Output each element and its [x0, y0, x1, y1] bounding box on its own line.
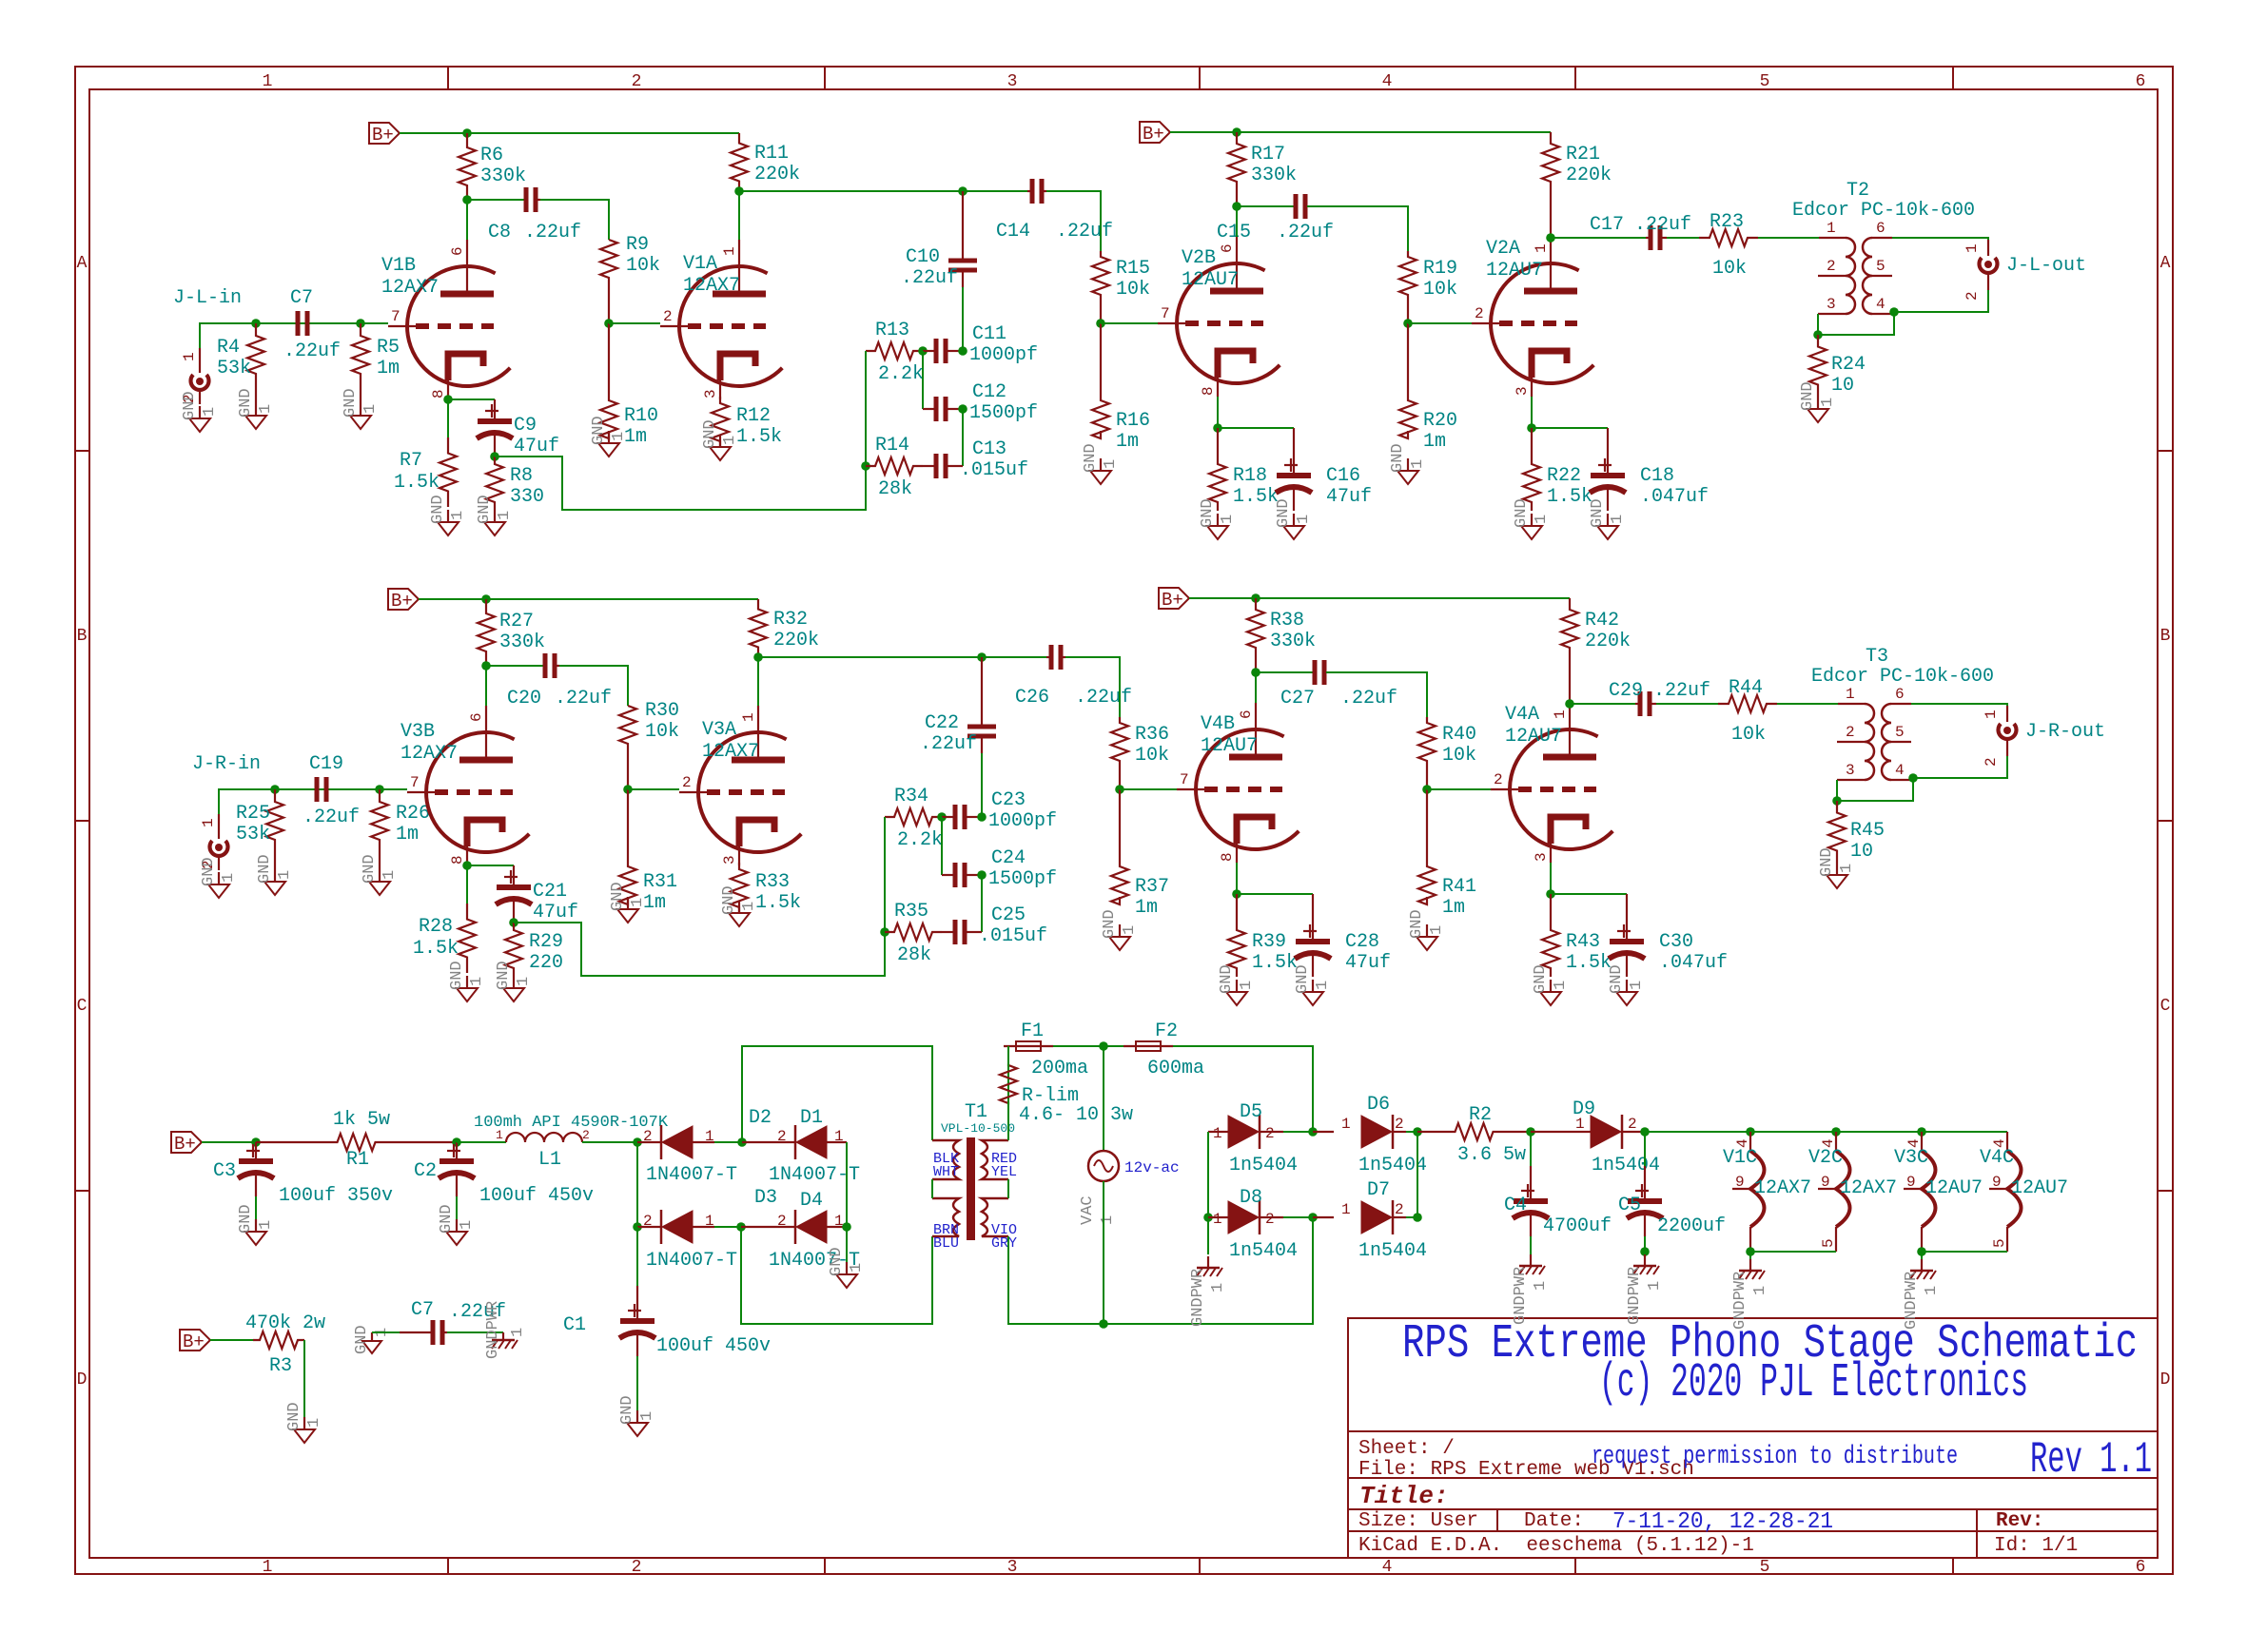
junction D4 / D1 / ground	[842, 1222, 851, 1232]
capacitor C14 .22uf	[996, 179, 1113, 243]
svg-text:1: 1	[1099, 1215, 1117, 1225]
junction R2 / C4 / D9	[1526, 1127, 1535, 1137]
svg-text:GND: GND	[181, 391, 199, 420]
svg-text:10k: 10k	[1712, 258, 1747, 280]
wire cathode V4B down	[1236, 863, 1238, 894]
request permission note	[1592, 1443, 1958, 1471]
svg-text:1: 1	[468, 977, 486, 986]
svg-text:1: 1	[740, 712, 757, 722]
svg-text:1: 1	[1838, 864, 1856, 873]
svg-text:28k: 28k	[878, 478, 912, 500]
ground below R7	[429, 495, 467, 535]
wire R-lim bottom	[1007, 1102, 1009, 1140]
svg-text:1: 1	[1409, 459, 1427, 469]
capacitor C16 47uf polarised	[1276, 428, 1372, 511]
svg-text:GND: GND	[1294, 964, 1312, 994]
svg-text:KiCad E.D.A. eeschema (5.1.12: KiCad E.D.A. eeschema (5.1.12)-1	[1358, 1535, 1754, 1557]
svg-text:2: 2	[1475, 305, 1484, 322]
ground below R8	[476, 495, 514, 535]
wire jack to input node	[200, 323, 388, 348]
heater V2C 12AX7	[1808, 1132, 1897, 1252]
svg-text:3: 3	[702, 389, 719, 398]
junction D8 / D7 / bottom rail	[1308, 1213, 1318, 1222]
junction R6 bottom / C8 / plate	[462, 195, 472, 204]
svg-text:10k: 10k	[1442, 745, 1476, 767]
ground below R45	[1818, 847, 1856, 888]
wire plate pin V4B	[1255, 672, 1257, 703]
svg-text:V4C: V4C	[1980, 1147, 2014, 1169]
svg-text:1: 1	[1751, 1286, 1769, 1295]
triode V1A 12AX7 second section	[660, 240, 782, 399]
svg-text:A: A	[77, 254, 88, 273]
svg-text:2: 2	[643, 1213, 653, 1230]
junction D6 / R2 / D7 branch	[1413, 1127, 1422, 1137]
capacitor C11 1000pf	[923, 323, 1038, 366]
ground below R5	[342, 388, 380, 429]
diode D4 1N4007-T	[769, 1190, 860, 1272]
resistor R37 1m	[1111, 789, 1169, 919]
svg-text:B+: B+	[1162, 590, 1183, 611]
svg-text:GND: GND	[448, 961, 466, 990]
junction R13 / C11	[918, 346, 928, 356]
svg-text:1: 1	[1209, 1283, 1227, 1292]
wire feedback C9 node to R14 node	[495, 457, 866, 510]
svg-text:C8: C8	[488, 222, 511, 243]
svg-text:YEL: YEL	[991, 1164, 1017, 1180]
svg-text:10: 10	[1850, 841, 1873, 863]
output label J-L-out	[2006, 255, 2086, 277]
wire grid V1A	[609, 322, 660, 324]
svg-text:1: 1	[305, 1418, 323, 1428]
junction D9 / C5 / heater rail	[1640, 1127, 1650, 1137]
wire C1 from D3 node	[636, 1227, 638, 1286]
svg-text:C16: C16	[1326, 465, 1360, 487]
svg-text:100uf 450v: 100uf 450v	[656, 1335, 771, 1357]
junction C3 / R1	[251, 1137, 261, 1147]
svg-text:1: 1	[1341, 1201, 1351, 1218]
svg-text:D2: D2	[749, 1107, 772, 1129]
svg-text:C22: C22	[925, 712, 959, 734]
ground below jack J-R-in	[200, 857, 238, 898]
svg-text:GND: GND	[237, 1204, 255, 1234]
junction D2 / D1 / top rail	[737, 1137, 747, 1147]
wire C29 to R44	[1656, 703, 1718, 705]
svg-text:2: 2	[1827, 258, 1836, 275]
svg-text:GNDPWR: GNDPWR	[1903, 1272, 1921, 1330]
capacitor C23 1000pf	[942, 789, 1057, 832]
svg-text:220k: 220k	[1566, 165, 1612, 186]
junction B+ rail 2 / R17	[1232, 127, 1241, 137]
capacitor C2 100uf 450v polarised	[414, 1142, 594, 1207]
wire D2 cathode to junction	[714, 1141, 742, 1143]
wire D1 to D4 junction	[846, 1142, 848, 1227]
ground below R43	[1532, 964, 1570, 1005]
svg-text:V1B: V1B	[381, 255, 416, 277]
svg-text:GND: GND	[1082, 443, 1100, 473]
svg-text:1: 1	[1341, 1116, 1351, 1133]
resistor R8 330	[486, 457, 544, 510]
svg-text:C: C	[2160, 997, 2171, 1016]
svg-text:1: 1	[1219, 515, 1237, 524]
svg-text:R6: R6	[480, 145, 503, 166]
wire T2 pin6 to J-L-out	[1892, 238, 1988, 240]
resistor R28 1.5k	[413, 904, 476, 973]
ground below C3	[237, 1204, 275, 1245]
svg-text:10k: 10k	[1116, 279, 1150, 301]
svg-text:4.6- 10 3w: 4.6- 10 3w	[1019, 1104, 1133, 1126]
connector J-R-out jack	[1983, 706, 2017, 767]
ground below R28	[448, 961, 486, 1001]
resistor R44 10k	[1718, 677, 1777, 746]
svg-text:3: 3	[721, 855, 738, 865]
svg-text:J-L-out: J-L-out	[2006, 255, 2086, 277]
svg-text:C26: C26	[1015, 687, 1049, 709]
wire R-lim top	[1007, 1046, 1009, 1066]
svg-text:1: 1	[1213, 1125, 1222, 1142]
svg-text:R12: R12	[736, 405, 771, 427]
triode V4A 12AU7 output section	[1491, 703, 1612, 863]
svg-text:B+: B+	[391, 591, 413, 612]
power flag B+ bleeder	[180, 1330, 210, 1352]
svg-text:GND: GND	[1218, 964, 1236, 994]
resistor R19 10k	[1399, 251, 1457, 323]
svg-text:R23: R23	[1710, 211, 1744, 233]
svg-text:R10: R10	[624, 405, 658, 427]
ground left of C7 supply cap	[353, 1325, 391, 1354]
svg-text:D9: D9	[1573, 1098, 1595, 1120]
svg-text:C7: C7	[411, 1299, 434, 1321]
capacitor C28 47uf polarised	[1295, 894, 1391, 977]
wire plate pin V1A	[738, 191, 740, 240]
svg-text:12AU7: 12AU7	[1505, 726, 1562, 748]
svg-text:1.5k: 1.5k	[1547, 486, 1592, 508]
ground below R26	[361, 854, 399, 895]
resistor R22 1.5k	[1523, 428, 1592, 511]
svg-text:1: 1	[1964, 243, 1981, 253]
wire R13 left vertical	[865, 351, 867, 466]
resistor R42 220k	[1561, 598, 1631, 704]
junction D3 / D3 branch	[633, 1222, 642, 1232]
svg-text:R1: R1	[346, 1149, 369, 1171]
svg-text:Sheet: /: Sheet: /	[1358, 1438, 1455, 1460]
junction cathode V3B	[462, 861, 472, 870]
svg-text:R30: R30	[645, 700, 679, 722]
svg-text:8: 8	[1200, 386, 1217, 396]
size field	[1358, 1510, 1478, 1532]
ground below C16	[1275, 498, 1313, 539]
svg-text:1: 1	[1628, 981, 1646, 990]
svg-text:Date:: Date:	[1524, 1510, 1584, 1532]
wire D6 cathode to junction	[1406, 1131, 1417, 1133]
title text line 2	[1599, 1356, 2028, 1410]
title label	[1359, 1482, 1449, 1510]
junction R30 / R31 / grid2	[623, 785, 633, 794]
wire R11 node to C14	[739, 190, 1027, 192]
wire R1 node to L1	[457, 1141, 506, 1143]
junction R19 / R20 / grid V2A	[1403, 319, 1413, 328]
diode D8 1n5404	[1213, 1187, 1298, 1262]
svg-text:1: 1	[201, 407, 219, 417]
svg-text:330k: 330k	[499, 632, 545, 653]
svg-text:R2: R2	[1469, 1104, 1492, 1126]
resistor R35 28k	[885, 901, 942, 966]
wire cathode V4A down	[1550, 863, 1552, 894]
svg-text:V4B: V4B	[1201, 713, 1235, 735]
svg-text:GND: GND	[1608, 964, 1626, 994]
junction VAC / bottom rail	[1099, 1319, 1108, 1329]
junction B+ rail / R6	[462, 128, 472, 138]
wire cathode node V2A to C18	[1532, 427, 1608, 429]
resistor R16 1m	[1092, 323, 1150, 453]
svg-text:12AX7: 12AX7	[683, 275, 740, 297]
svg-text:C3: C3	[213, 1160, 236, 1182]
svg-text:GND: GND	[1513, 498, 1531, 528]
svg-text:47uf: 47uf	[1345, 952, 1391, 974]
svg-text:2: 2	[1494, 771, 1503, 788]
wire C27 to R40	[1326, 672, 1427, 717]
svg-text:3.6 5w: 3.6 5w	[1457, 1144, 1526, 1166]
input label J-R-in	[192, 753, 261, 775]
svg-text:1: 1	[1532, 1281, 1550, 1291]
svg-text:V2C: V2C	[1808, 1147, 1843, 1169]
power ground GNDPWR below V1C	[1731, 1259, 1769, 1330]
wire grid V2B	[1101, 322, 1158, 324]
junction cathode V2A	[1527, 423, 1536, 433]
svg-text:R5: R5	[377, 337, 400, 359]
wire D5 left branch	[1207, 1132, 1209, 1217]
wire T2 pin4 link	[1818, 312, 1894, 335]
svg-text:12AX7: 12AX7	[1840, 1177, 1897, 1199]
svg-text:GND: GND	[285, 1402, 303, 1431]
capacitor C30 polarised	[1609, 894, 1728, 977]
diode D2 cathode lead	[693, 1141, 714, 1143]
power ground GNDPWR right of C7	[484, 1301, 527, 1359]
resistor R41 1m	[1418, 789, 1476, 919]
svg-text:F2: F2	[1155, 1020, 1178, 1042]
wire cathode node V4B to C28	[1237, 893, 1313, 895]
svg-text:1.5k: 1.5k	[413, 938, 459, 960]
resistor R18 1.5k	[1209, 428, 1279, 511]
svg-text:C27: C27	[1280, 688, 1315, 709]
junction L1 / D2 / D3 branch	[633, 1137, 642, 1147]
svg-text:.22uf: .22uf	[303, 807, 360, 828]
svg-text:R40: R40	[1442, 724, 1476, 746]
svg-text:D6: D6	[1367, 1094, 1390, 1116]
svg-text:5: 5	[1991, 1238, 2008, 1248]
svg-text:C1: C1	[563, 1314, 586, 1336]
capacitor C19 .22uf	[303, 753, 360, 828]
svg-text:GND: GND	[237, 388, 255, 418]
svg-text:R43: R43	[1566, 931, 1600, 953]
capacitor C7 .22uf supply	[400, 1299, 506, 1345]
wire plate pin V1B	[466, 200, 468, 240]
svg-text:5: 5	[1876, 258, 1886, 275]
resistor R39 1.5k	[1228, 894, 1298, 977]
wire plate pin V2B	[1236, 206, 1238, 237]
svg-text:8: 8	[1219, 852, 1236, 862]
svg-text:9: 9	[1906, 1174, 1916, 1191]
svg-text:R45: R45	[1850, 820, 1885, 842]
svg-text:R35: R35	[894, 901, 928, 923]
svg-text:47uf: 47uf	[533, 902, 578, 923]
svg-text:C23: C23	[991, 789, 1026, 811]
junction R36 / R37 / grid V4B	[1115, 785, 1124, 794]
svg-text:2: 2	[1983, 757, 2000, 767]
svg-text:3: 3	[1007, 72, 1018, 91]
svg-text:D5: D5	[1240, 1101, 1262, 1123]
junction R21 / C17 / plate V2A	[1546, 233, 1555, 243]
svg-text:GND: GND	[1818, 847, 1836, 877]
resistor R30 10k	[619, 700, 679, 789]
svg-text:1: 1	[257, 1220, 275, 1230]
resistor R43 1.5k	[1542, 894, 1612, 977]
svg-text:D3: D3	[754, 1187, 777, 1209]
svg-text:1: 1	[276, 870, 294, 880]
capacitor C5 2200uf polarised	[1618, 1166, 1726, 1237]
wire GND to C7 supply	[372, 1331, 400, 1333]
svg-text:R36: R36	[1135, 724, 1169, 746]
svg-text:R22: R22	[1547, 465, 1581, 487]
svg-text:1N4007-T: 1N4007-T	[646, 1164, 737, 1186]
junction C19 / R26 / grid	[375, 785, 384, 794]
svg-text:.047uf: .047uf	[1659, 952, 1728, 974]
svg-text:100uf 450v: 100uf 450v	[479, 1185, 594, 1207]
svg-text:.22uf: .22uf	[283, 340, 341, 362]
svg-text:12AU7: 12AU7	[2011, 1177, 2068, 1199]
wire T3 pin3 to R45 node	[1836, 780, 1838, 801]
svg-text:GNDPWR: GNDPWR	[484, 1301, 502, 1359]
svg-text:D7: D7	[1367, 1179, 1390, 1201]
svg-text:4: 4	[1895, 762, 1905, 779]
capacitor C18 polarised	[1590, 428, 1709, 511]
ground below R18	[1199, 498, 1237, 539]
svg-text:V3C: V3C	[1894, 1147, 1928, 1169]
svg-text:1: 1	[200, 818, 217, 827]
svg-text:B+: B+	[1143, 124, 1164, 145]
capacitor C29 .22uf	[1609, 680, 1710, 716]
svg-text:10k: 10k	[1423, 279, 1457, 301]
svg-text:6: 6	[2136, 72, 2146, 91]
wire C15 to R19	[1307, 206, 1408, 251]
capacitor C26 .22uf	[1015, 645, 1132, 709]
svg-text:4700uf: 4700uf	[1543, 1215, 1612, 1237]
svg-text:1500pf: 1500pf	[969, 402, 1038, 424]
resistor R36 10k	[1111, 717, 1169, 789]
svg-text:C: C	[77, 997, 88, 1016]
svg-text:1.5k: 1.5k	[1233, 486, 1279, 508]
svg-text:2: 2	[1265, 1211, 1275, 1228]
svg-text:GND: GND	[1389, 443, 1407, 473]
wire V4C return to V3C ground	[1922, 1251, 2007, 1253]
ground below R24	[1799, 381, 1837, 422]
svg-text:C21: C21	[533, 881, 567, 903]
svg-text:1: 1	[1213, 1211, 1222, 1228]
svg-text:GND: GND	[256, 854, 274, 884]
junction input / R4	[251, 319, 261, 328]
svg-text:47uf: 47uf	[1326, 486, 1372, 508]
svg-text:2: 2	[1964, 291, 1981, 301]
svg-text:2: 2	[1395, 1201, 1404, 1218]
wire R34 left vertical	[884, 817, 886, 932]
wire cathode V2B down	[1217, 397, 1219, 428]
svg-text:10k: 10k	[645, 721, 679, 743]
resistor R3 470k 2w	[245, 1312, 325, 1377]
ground below R4	[237, 388, 275, 429]
wire C23 node down to C24	[941, 817, 943, 875]
svg-text:1n5404: 1n5404	[1229, 1240, 1298, 1262]
svg-text:GND: GND	[438, 1204, 456, 1234]
heater V1C 12AX7	[1723, 1132, 1811, 1252]
svg-text:200ma: 200ma	[1031, 1058, 1088, 1079]
svg-text:R26: R26	[396, 803, 430, 825]
wire D6 to D7 branch	[1417, 1132, 1418, 1217]
svg-text:GND: GND	[429, 495, 447, 524]
wire C26 to R36	[1065, 657, 1120, 717]
svg-text:.047uf: .047uf	[1640, 486, 1709, 508]
resistor R13 2.2k	[866, 320, 924, 385]
svg-text:1: 1	[1121, 925, 1139, 935]
transformer T3 Edcor PC-10k-600	[1811, 646, 1994, 780]
wire C5 drop	[1644, 1132, 1646, 1166]
svg-text:GND: GND	[353, 1325, 371, 1354]
diode D7 anode lead	[1313, 1216, 1334, 1218]
svg-text:R39: R39	[1252, 931, 1286, 953]
wire C17 to R23	[1667, 237, 1699, 239]
diode D8 cathode lead	[1260, 1216, 1283, 1218]
svg-text:3: 3	[1514, 386, 1531, 396]
svg-text:1: 1	[257, 404, 275, 414]
svg-text:6: 6	[1238, 709, 1255, 719]
svg-text:1: 1	[509, 1328, 527, 1337]
wire C10 to C11 node	[962, 287, 964, 351]
resistor R33 1.5k	[731, 863, 801, 914]
triode V2A 12AU7 output section	[1472, 237, 1593, 397]
svg-text:1: 1	[181, 352, 198, 361]
svg-text:R16: R16	[1116, 410, 1150, 432]
wire R32 node to C26	[758, 656, 1046, 658]
svg-text:R13: R13	[875, 320, 909, 341]
wire F1 to AC node	[1053, 1045, 1104, 1047]
junction C10 top	[958, 186, 967, 196]
svg-text:1: 1	[361, 404, 380, 414]
svg-text:.015uf: .015uf	[979, 925, 1047, 947]
triode V3A 12AX7 second section	[679, 706, 801, 865]
wire grid V2A	[1408, 322, 1472, 324]
svg-text:2: 2	[632, 1558, 642, 1577]
fuse F1 200ma	[1004, 1020, 1088, 1079]
resistor R45 10	[1828, 801, 1885, 863]
svg-text:.015uf: .015uf	[960, 459, 1028, 481]
capacitor C22 .22uf	[920, 657, 996, 755]
ground below R3	[285, 1402, 323, 1443]
capacitor C4 4700uf polarised	[1504, 1166, 1612, 1237]
resistor R12 1.5k	[712, 397, 782, 448]
svg-text:V2A: V2A	[1486, 238, 1520, 260]
connector J-L-out jack	[1964, 240, 1998, 301]
svg-text:T1: T1	[965, 1101, 987, 1123]
junction R27 bottom / C20 / plate	[481, 661, 491, 671]
svg-text:J-L-in: J-L-in	[173, 287, 242, 309]
svg-text:1m: 1m	[1442, 897, 1465, 919]
diode D6 anode lead	[1313, 1131, 1334, 1133]
power flag B+ (top row stage 3)	[1140, 122, 1170, 145]
junction T2 pin3 / pin4 / R24	[1813, 330, 1823, 340]
junction C23 right	[977, 812, 987, 822]
wire J-L-out return	[1894, 290, 1988, 312]
svg-text:1m: 1m	[1135, 897, 1158, 919]
svg-text:1m: 1m	[1423, 431, 1446, 453]
wire vertical C12 to C13	[962, 409, 964, 466]
